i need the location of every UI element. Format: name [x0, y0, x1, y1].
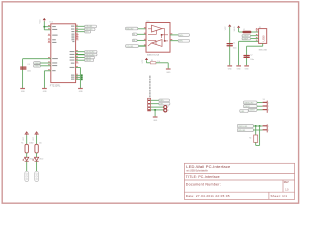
op-amp IC3 MAX481 box	[146, 23, 170, 53]
IC3 pin numbers	[144, 27, 172, 45]
svg-text:1: 1	[168, 106, 169, 108]
junction on pin4 wire	[154, 109, 156, 111]
svg-text:100n: 100n	[250, 59, 254, 61]
wire LED1 to pad	[26, 162, 28, 172]
svg-text:USB: USB	[262, 35, 266, 41]
wire RTS	[76, 31, 85, 33]
net label GND (SV1)	[240, 109, 248, 112]
svg-text:CBUS2: CBUS2	[244, 106, 249, 108]
ground GND3	[78, 88, 83, 89]
wire R1 to LED1	[26, 153, 28, 157]
svg-text:R2: R2	[31, 143, 33, 145]
IC3 receiver triangle	[152, 40, 163, 47]
wire CBUS3	[76, 59, 85, 61]
svg-text:1.0: 1.0	[285, 190, 289, 192]
svg-text:100n: 100n	[27, 71, 31, 73]
svg-text:mit USB-Schnittstelle: mit USB-Schnittstelle	[186, 169, 208, 172]
svg-text:REV:: REV:	[284, 182, 290, 184]
svg-text:X3: X3	[263, 99, 265, 101]
LED1	[23, 157, 29, 161]
svg-text:USBDP: USBDP	[243, 39, 249, 41]
wire CBUS2	[76, 57, 85, 59]
net label CTS (X4)	[237, 128, 253, 131]
svg-text:GND: GND	[153, 120, 158, 122]
svg-text:CBUS3: CBUS3	[85, 60, 90, 62]
svg-text:RXD-LED: RXD-LED	[126, 28, 134, 30]
wire X4 pin2	[253, 129, 262, 131]
svg-text:GND: GND	[245, 69, 250, 71]
capacitor C4	[20, 67, 26, 70]
IC3 internal junctions	[161, 34, 163, 36]
wire X2 pin3 to jumper	[151, 106, 164, 108]
wire RXD	[76, 28, 85, 30]
connector X1 USB	[259, 29, 267, 44]
svg-text:Date: 27.04.2011 22:05:05: Date: 27.04.2011 22:05:05	[186, 194, 230, 198]
wire USB GND to ground	[239, 41, 259, 65]
svg-text:GND: GND	[21, 91, 26, 93]
svg-text:DMX+: DMX+	[179, 35, 184, 37]
wire X2 pin2	[151, 103, 159, 105]
svg-text:RTS: RTS	[85, 32, 88, 34]
wire SV1 pin2	[257, 105, 263, 107]
svg-text:FT232RL: FT232RL	[50, 84, 61, 87]
wire to R4	[255, 126, 257, 135]
ground GND4	[166, 68, 171, 69]
svg-text:DE: DE	[133, 40, 135, 42]
net label DMX+	[178, 34, 189, 37]
supply VCC P1	[40, 18, 46, 24]
wire VCC to IC1	[44, 21, 51, 29]
jumper JP1	[164, 106, 167, 112]
svg-text:TXD-LED: TXD-LED	[126, 46, 134, 48]
IC1 left pin names	[52, 26, 58, 71]
svg-text:MAX481CSA: MAX481CSA	[147, 54, 160, 57]
net label CBUS2 (SV1)	[244, 105, 258, 108]
LED2	[33, 157, 39, 161]
wire RE	[137, 33, 146, 35]
svg-text:CBUS3: CBUS3	[249, 110, 254, 112]
svg-text:R3: R3	[151, 60, 153, 62]
pin header X4	[263, 124, 268, 132]
wire A	[170, 34, 178, 36]
net label CBUS3	[85, 59, 94, 62]
net label DMX-	[178, 39, 189, 42]
svg-text:C1: C1	[233, 42, 235, 44]
svg-text:Document Number:: Document Number:	[186, 183, 221, 187]
wire X2 pin4 to jumper and ground	[151, 110, 164, 117]
wire LED2 to pad	[36, 162, 38, 172]
wire RO	[138, 28, 146, 30]
svg-text:CBUS0-LED: CBUS0-LED	[244, 102, 254, 104]
resistor R4	[254, 135, 258, 142]
USB pin stub	[256, 29, 259, 31]
resistor R3	[150, 62, 156, 64]
wire L1 to USB VBUS	[251, 31, 258, 33]
supply +5V arrow (LED chain 2)	[35, 132, 38, 136]
svg-text:RXD-LED: RXD-LED	[238, 130, 246, 132]
svg-text:100n: 100n	[233, 47, 237, 49]
svg-text:C2: C2	[250, 54, 252, 56]
svg-text:RE: RE	[133, 34, 135, 36]
svg-text:L1: L1	[243, 29, 245, 31]
net label USBDM	[34, 62, 51, 65]
net label RTS	[85, 31, 91, 34]
wire R3 to ground	[156, 63, 168, 69]
net label DMX+ (X2)	[159, 99, 170, 102]
net label CBUS2	[85, 56, 95, 59]
net label CBUS0	[85, 51, 97, 54]
wire SV1 pin3	[257, 109, 263, 111]
wire VCC to R3	[147, 60, 151, 63]
IC1 right pin names	[70, 26, 75, 80]
svg-text:GND: GND	[79, 91, 84, 93]
wire CBUS1	[76, 54, 85, 56]
wire CBUS0	[76, 51, 85, 53]
svg-text:C4: C4	[27, 64, 29, 66]
svg-text:LED-Wall PC-Interface: LED-Wall PC-Interface	[186, 164, 231, 169]
wire TXD	[76, 25, 85, 27]
svg-text:DMX-: DMX-	[179, 41, 184, 43]
svg-text:2: 2	[168, 110, 169, 112]
net label USBDP	[34, 65, 51, 68]
svg-text:VCC: VCC	[142, 59, 144, 63]
svg-text:Sheet: 1/1: Sheet: 1/1	[271, 194, 288, 198]
wire VCC P3 to ground	[229, 27, 231, 66]
svg-text:DMX-: DMX-	[160, 104, 165, 106]
wire 3V3OUT	[23, 59, 51, 89]
supply +5V arrow (LED chain 1)	[25, 132, 28, 136]
svg-text:3: 3	[268, 110, 269, 112]
net label DMX- (X2)	[159, 102, 170, 105]
svg-text:VCC: VCC	[40, 19, 42, 24]
svg-text:2: 2	[268, 130, 269, 132]
wire to R1	[26, 135, 28, 144]
USB pin numbers	[256, 28, 258, 40]
svg-text:GND: GND	[237, 69, 242, 71]
net label RE (IC2 left 2)	[132, 33, 137, 36]
wire D-	[251, 35, 259, 37]
svg-text:IC1: IC1	[49, 22, 53, 24]
svg-text:220: 220	[39, 143, 42, 145]
IC3 internal wiring	[148, 29, 168, 46]
wire SV1 pin1	[257, 102, 263, 104]
ground GND8	[244, 65, 249, 66]
capacitor C2	[243, 55, 249, 58]
svg-text:USBDP: USBDP	[34, 66, 40, 68]
net label RTS (X4)	[237, 124, 253, 127]
junction A	[255, 125, 257, 127]
svg-text:R4: R4	[249, 137, 251, 139]
ground GND6	[227, 65, 232, 66]
svg-text:GND: GND	[228, 69, 233, 71]
wire DI	[139, 45, 147, 47]
wire CBUS4 to ground	[76, 68, 81, 89]
supply VCC P2 (below IC3)	[145, 58, 148, 60]
wire to R2	[36, 135, 38, 144]
ground GND5	[153, 116, 158, 117]
title block	[184, 163, 294, 199]
IC1 FT232RL box	[51, 24, 76, 83]
wire DE	[137, 39, 146, 41]
wire R2 to LED2	[36, 153, 38, 157]
svg-text:2: 2	[268, 106, 269, 108]
net label CBUS3 (SV1)	[248, 108, 257, 111]
pin header SV1	[263, 101, 268, 113]
connector X2	[148, 98, 151, 111]
capacitor C1	[227, 43, 233, 46]
net label DE (IC2 left 3)	[132, 39, 137, 42]
supply VCC P3	[228, 24, 231, 26]
wire B	[170, 40, 178, 42]
inductor L1 ferrite	[242, 31, 251, 34]
svg-text:1: 1	[268, 103, 269, 105]
net label TXD	[85, 25, 97, 28]
wire X2 pin1	[151, 99, 159, 101]
net label USBDP (USB)	[242, 37, 251, 40]
svg-text:VCC: VCC	[225, 26, 227, 30]
ground GND1	[20, 88, 25, 89]
svg-text:MINI-USB: MINI-USB	[259, 50, 268, 52]
svg-text:LED2: LED2	[39, 158, 43, 160]
svg-text:TITLE: PC-Interface: TITLE: PC-Interface	[186, 175, 220, 179]
ground GND2	[42, 88, 47, 89]
net label DI (IC2 left 4)	[126, 45, 139, 48]
supply VBUS P4	[237, 26, 240, 28]
svg-text:VCC: VCC	[23, 136, 25, 140]
wirepad PAD1	[25, 171, 29, 181]
svg-text:DMX+: DMX+	[160, 100, 165, 102]
net label CBUS0 (SV1)	[244, 101, 258, 104]
wire USB shield	[247, 43, 263, 65]
svg-text:GND: GND	[43, 91, 48, 93]
net label CBUS1	[85, 53, 97, 56]
ground GND7	[236, 65, 241, 66]
wire R4 loop	[256, 126, 260, 145]
resistor R1	[25, 144, 28, 153]
wire VBUS to L1	[239, 28, 243, 32]
svg-text:CBUS1-LED: CBUS1-LED	[238, 126, 248, 128]
net label RXD	[85, 28, 95, 31]
IC1 unconnected right pin stubs	[76, 34, 79, 63]
wire D+	[251, 38, 259, 40]
svg-text:GND: GND	[166, 72, 171, 74]
net label RO (IC2 left 1)	[126, 27, 138, 30]
wire AGND to ground	[44, 71, 50, 89]
junction B	[259, 125, 261, 127]
IC1 unconnected left pin stubs	[48, 35, 51, 42]
svg-text:VCC: VCC	[33, 136, 35, 140]
junction dots on GND wire	[81, 74, 83, 80]
connector X2 name (vertical)	[149, 76, 150, 98]
wirepad PAD2	[35, 171, 39, 181]
IC3 driver triangle	[152, 25, 163, 32]
IC1 pin numbers	[48, 25, 78, 79]
svg-text:VBUS: VBUS	[234, 26, 236, 32]
svg-text:1: 1	[268, 126, 269, 128]
svg-text:R1: R1	[21, 143, 23, 145]
junction	[43, 26, 45, 28]
resistor R2	[35, 144, 38, 153]
net label USBDM (USB)	[242, 35, 251, 38]
wire X4 pin1	[253, 125, 262, 127]
frame border	[2, 2, 298, 203]
